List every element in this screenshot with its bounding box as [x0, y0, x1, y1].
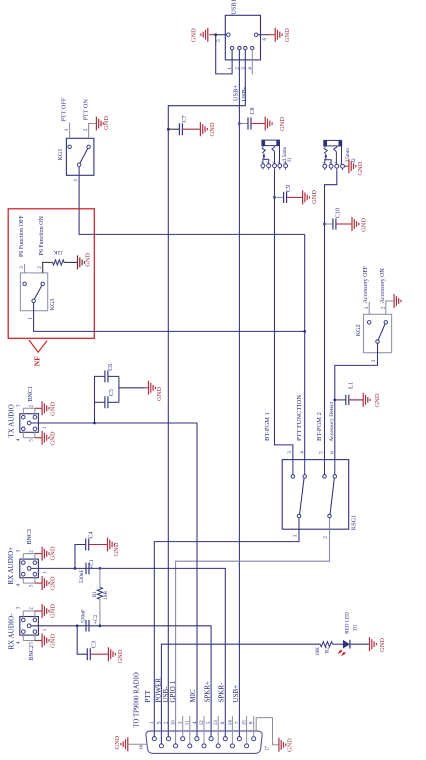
junction C7 tap on USB-	[167, 128, 170, 131]
svg-text:GPIO 1: GPIO 1	[169, 680, 177, 702]
svg-text:GND: GND	[191, 28, 198, 42]
wire net RX AUDIO+ : BNC3 pin1 to DB15 pin6 (SPKR-)	[31, 568, 225, 738]
DB15 stub wires unconnected pins	[183, 716, 254, 744]
svg-text:3: 3	[73, 179, 79, 182]
svg-text:GND: GND	[50, 546, 57, 560]
svg-text:PTT FUNCTION: PTT FUNCTION	[296, 395, 303, 441]
svg-text:GND: GND	[103, 116, 110, 130]
svg-text:PTT: PTT	[144, 689, 152, 702]
ground at KG2 pin2	[394, 294, 401, 308]
ground GND at BNC3 top	[42, 546, 57, 560]
wire net BT-PGM 1 to KSG1 pin3	[275, 197, 293, 459]
ground GND at shell pin 16	[114, 735, 128, 751]
svg-text:BNC2: BNC2	[29, 645, 35, 660]
svg-text:17: 17	[266, 746, 271, 752]
wire BNC3 shield bottom to ground	[35, 582, 42, 584]
svg-text:R2: R2	[325, 647, 331, 654]
wire KG3 common to PTT FUNCTION net	[34, 303, 305, 332]
svg-text:USB-: USB-	[241, 87, 248, 102]
svg-text:1: 1	[64, 128, 70, 131]
svg-text:GND: GND	[156, 387, 163, 401]
connector P1 DB15 TO TP9000 RADIO	[134, 672, 262, 753]
svg-text:2: 2	[380, 306, 386, 309]
DB15 shell pin 16 to ground	[128, 743, 147, 745]
svg-text:C7: C7	[182, 115, 188, 122]
wire stub KG2 pin1	[368, 302, 370, 315]
svg-text:+C1: +C1	[89, 559, 95, 569]
ground GND at USB1 pin6	[275, 28, 291, 43]
wire net RX AUDIO- : BNC2 pin1 to DB15 pin5 (SPKR+)	[31, 626, 211, 739]
wire net USB+ : USB1 pin2 down to DB15 pin7	[238, 50, 240, 739]
svg-text:13: 13	[214, 720, 219, 726]
svg-text:KG2: KG2	[355, 324, 362, 336]
svg-text:11: 11	[186, 720, 191, 725]
svg-text:GND: GND	[209, 122, 216, 136]
net flag NF	[29, 340, 47, 366]
ground GND at 12K resistor	[78, 253, 92, 270]
svg-text:BT-PGM 1: BT-PGM 1	[264, 412, 271, 441]
junction C5/C6 tap	[93, 422, 96, 425]
relay KG3	[20, 273, 55, 311]
svg-text:C3: C3	[92, 641, 98, 648]
capacitor C7	[168, 115, 200, 135]
connector BNC2	[8, 611, 39, 661]
svg-text:C10: C10	[336, 208, 342, 218]
wire R2 to LED	[333, 643, 343, 645]
ground GND at shell pin 17	[279, 738, 294, 752]
capacitor C4	[75, 531, 107, 568]
ground GND at BNC2 bottom	[42, 634, 57, 649]
capacitor C5	[95, 376, 119, 408]
svg-text:2: 2	[83, 128, 89, 131]
ground GND at C9	[303, 190, 319, 205]
ground GND at C4	[108, 538, 121, 557]
svg-text:GND: GND	[311, 190, 318, 204]
svg-text:MIC: MIC	[189, 689, 197, 703]
svg-text:TX AUDIO: TX AUDIO	[7, 404, 15, 437]
svg-text:GND: GND	[113, 542, 120, 556]
wire KG2 pin2 to ground	[386, 301, 394, 314]
wire J2 sleeve to ground	[345, 165, 349, 167]
svg-text:KG3: KG3	[49, 298, 56, 310]
svg-text:3: 3	[287, 451, 293, 454]
junction L1 tap	[333, 399, 336, 402]
ground GND at KG1 pin2	[96, 116, 110, 131]
wire KG3 pin2 elbow to resistor	[43, 262, 53, 273]
svg-text:16: 16	[139, 745, 144, 751]
wire J1 tip contact down (net BT-PGM 1)	[274, 170, 276, 198]
svg-text:NF: NF	[33, 356, 42, 366]
svg-text:1: 1	[293, 534, 299, 537]
DB15 pin numbers 1,9,2,10,3,11,4,12,5,13,6,14,7,15,8	[150, 720, 254, 726]
svg-text:RX AUDIO+: RX AUDIO+	[7, 547, 15, 585]
junction KG3 net joins PTT FUNCTION vertical	[303, 330, 306, 333]
svg-text:C8: C8	[250, 107, 256, 114]
svg-text:SPKR-: SPKR-	[218, 682, 226, 703]
svg-text:TO TP9000 RADIO: TO TP9000 RADIO	[134, 672, 141, 727]
svg-text:Accessory OFF: Accessory OFF	[363, 265, 369, 303]
svg-text:3: 3	[371, 359, 377, 362]
ground GND at BNC1 bottom	[42, 431, 56, 446]
connector J2 3.5mm jack	[323, 140, 357, 170]
ground GND at BNC1 top	[42, 401, 56, 416]
ground GND at C7	[200, 122, 215, 136]
wire KSG1 pin2 to DB15 pin10 (GPIO11)	[176, 518, 330, 746]
svg-text:10: 10	[172, 720, 177, 726]
svg-text:GND: GND	[114, 735, 121, 749]
ground GND at C8	[265, 117, 286, 132]
svg-text:GND: GND	[287, 738, 294, 752]
svg-text:USB+: USB+	[232, 685, 240, 703]
connector BNC1	[7, 386, 38, 438]
ground GND at C10	[352, 217, 367, 232]
ground GND at BNC2 top	[42, 604, 57, 618]
wire net USB- : USB1 pin3 jog down to DB15 pin2	[168, 50, 245, 739]
wire KSG1 pin1 to DB15 pin1 (PTT)	[154, 518, 299, 739]
resistor R2	[315, 642, 332, 657]
svg-text:6: 6	[262, 37, 268, 40]
LED D1	[339, 612, 359, 656]
svg-text:6: 6	[330, 451, 336, 454]
DB15 bottom row pin circles 9-15	[159, 744, 248, 748]
junction R1 top	[99, 567, 102, 570]
connector J1 3.5mm jack	[261, 140, 294, 170]
svg-text:GND: GND	[50, 634, 57, 648]
svg-text:5: 5	[319, 451, 325, 454]
wire BNC1 shield bottom to ground	[35, 437, 42, 439]
svg-text:14: 14	[228, 720, 233, 726]
svg-text:BT-PGM 2: BT-PGM 2	[316, 412, 323, 441]
capacitor C1 (series, polarized)	[79, 559, 95, 583]
switch KSG1	[282, 460, 357, 531]
svg-text:12: 12	[200, 720, 205, 726]
wire BNC2 shield top to ground	[35, 610, 42, 612]
svg-text:GND: GND	[49, 402, 56, 416]
svg-text:PTT ON: PTT ON	[82, 99, 89, 121]
svg-text:1: 1	[27, 317, 33, 320]
wire KG2 common (net Accessory Detect) to KSG1 pin6	[335, 343, 378, 459]
svg-text:GND: GND	[379, 638, 386, 652]
svg-text:12K: 12K	[54, 249, 64, 255]
ground GND at BNC3 bottom	[42, 576, 57, 590]
wire USB1 pin1 shield loop to GND net	[216, 35, 232, 74]
svg-text:D1: D1	[353, 624, 359, 631]
capacitor C6	[95, 364, 119, 423]
svg-text:GND: GND	[284, 28, 291, 42]
relay KG1	[57, 138, 94, 175]
svg-text:GND: GND	[85, 253, 92, 267]
svg-text:GND: GND	[49, 431, 56, 445]
capacitor C10	[325, 208, 352, 230]
svg-text:Accessory ON: Accessory ON	[380, 268, 386, 304]
svg-text:RX AUDIO-: RX AUDIO-	[8, 613, 16, 650]
svg-text:C4: C4	[89, 531, 95, 538]
svg-text:15: 15	[243, 720, 248, 726]
svg-text:GND: GND	[279, 117, 286, 131]
svg-text:2: 2	[37, 266, 43, 269]
capacitor C2 (series, polarized)	[81, 609, 100, 631]
capacitor C8	[239, 107, 264, 129]
junction C4 tap	[74, 567, 77, 570]
connector USB1	[225, 0, 260, 60]
wire C5/C6 common to ground	[119, 387, 144, 389]
ground GND at J2	[349, 159, 364, 175]
connector BNC3	[7, 529, 39, 584]
ground GND at LED	[370, 637, 387, 652]
svg-text:PTT OFF: PTT OFF	[60, 97, 67, 121]
capacitor C9	[275, 185, 303, 203]
svg-text:C6: C6	[108, 364, 114, 371]
svg-text:KSG1: KSG1	[351, 515, 358, 530]
svg-text:530nF: 530nF	[81, 609, 87, 623]
svg-text:GND: GND	[50, 604, 57, 618]
junction C10 tap	[323, 223, 326, 226]
junction C8 tap on USB+	[238, 122, 241, 125]
svg-text:BNC3: BNC3	[27, 529, 33, 544]
wire LED to ground	[350, 643, 369, 645]
svg-text:GND: GND	[50, 576, 57, 590]
wire USB1 pin6 to ground	[258, 34, 268, 36]
ground GND at USB1 pin5	[191, 28, 208, 43]
junction C9 tap	[273, 196, 276, 199]
ground GND at C5/C6	[149, 381, 164, 401]
svg-text:RED LED: RED LED	[344, 612, 350, 634]
svg-text:10R: 10R	[103, 591, 109, 600]
junction C3 tap	[76, 624, 79, 627]
svg-text:Accessory Detect: Accessory Detect	[329, 401, 335, 441]
svg-text:3: 3	[19, 266, 25, 269]
svg-text:P6 Function ON: P6 Function ON	[39, 215, 45, 255]
svg-text:C9: C9	[286, 185, 292, 192]
ground GND at L1	[363, 393, 381, 408]
svg-text:GND: GND	[360, 218, 367, 232]
svg-text:KG1: KG1	[57, 148, 64, 160]
svg-text:C5: C5	[109, 389, 115, 396]
svg-text:GND: GND	[374, 393, 381, 407]
wire net TX AUDIO : BNC1 pin1 to DB15 pin4 (MIC)	[31, 423, 197, 739]
svg-text:R1: R1	[92, 591, 98, 598]
relay KG2	[355, 314, 392, 352]
svg-text:USB1: USB1	[231, 0, 238, 15]
wire J2 ring contact down (net BT-PGM 2)	[325, 170, 337, 460]
wire USB1 pin5 to ground	[216, 34, 227, 36]
svg-text:SPKR+: SPKR+	[203, 681, 211, 703]
resistor 12K	[53, 249, 65, 265]
svg-text:10K: 10K	[315, 647, 321, 656]
DB15 shell pin 17 to ground	[256, 718, 278, 745]
wire BNC3 shield top to ground	[35, 553, 42, 555]
junction at USB pin5/pin1	[214, 33, 217, 36]
DB15 signal labels	[144, 678, 240, 703]
svg-text:1: 1	[364, 306, 370, 309]
svg-text:+C2: +C2	[93, 614, 99, 624]
wire KG1 pin2 to ground	[89, 124, 96, 139]
svg-text:P6 Function OFF: P6 Function OFF	[19, 215, 25, 257]
svg-text:2: 2	[323, 536, 329, 539]
junction R1 bottom	[99, 624, 102, 627]
svg-text:5: 5	[216, 39, 222, 42]
svg-text:4: 4	[299, 451, 305, 454]
wire 12K to ground	[64, 261, 77, 263]
ground GND at C3	[108, 647, 124, 663]
svg-text:USB+: USB+	[233, 85, 240, 101]
wire stub KG3 pin3	[24, 264, 26, 273]
svg-text:J1: J1	[287, 157, 293, 162]
wire BNC2 shield bottom to ground	[35, 640, 42, 642]
svg-text:GND: GND	[117, 649, 124, 663]
wire KG1 common to PTT FUNCTION net	[79, 167, 305, 235]
inductor L1	[335, 382, 363, 405]
wire POWER riser corner to R2	[161, 644, 320, 746]
svg-text:530nF: 530nF	[79, 570, 85, 584]
wire stub KG1 pin1	[69, 123, 71, 139]
resistor R1	[92, 568, 109, 625]
wire net PTT FUNCTION vertical to KSG1 pin4	[304, 234, 306, 459]
svg-text:L1: L1	[348, 382, 354, 389]
svg-text:GND: GND	[357, 161, 364, 175]
capacitor C3	[77, 626, 108, 660]
wire BNC1 shield top to ground	[35, 407, 42, 409]
DB15 top row pin circles 1-8	[152, 737, 256, 741]
svg-text:1: 1	[227, 67, 233, 70]
wire stub USB1 pin4	[251, 50, 253, 75]
highlight box (NF region)	[8, 209, 94, 338]
svg-text:BNC1: BNC1	[28, 386, 34, 401]
